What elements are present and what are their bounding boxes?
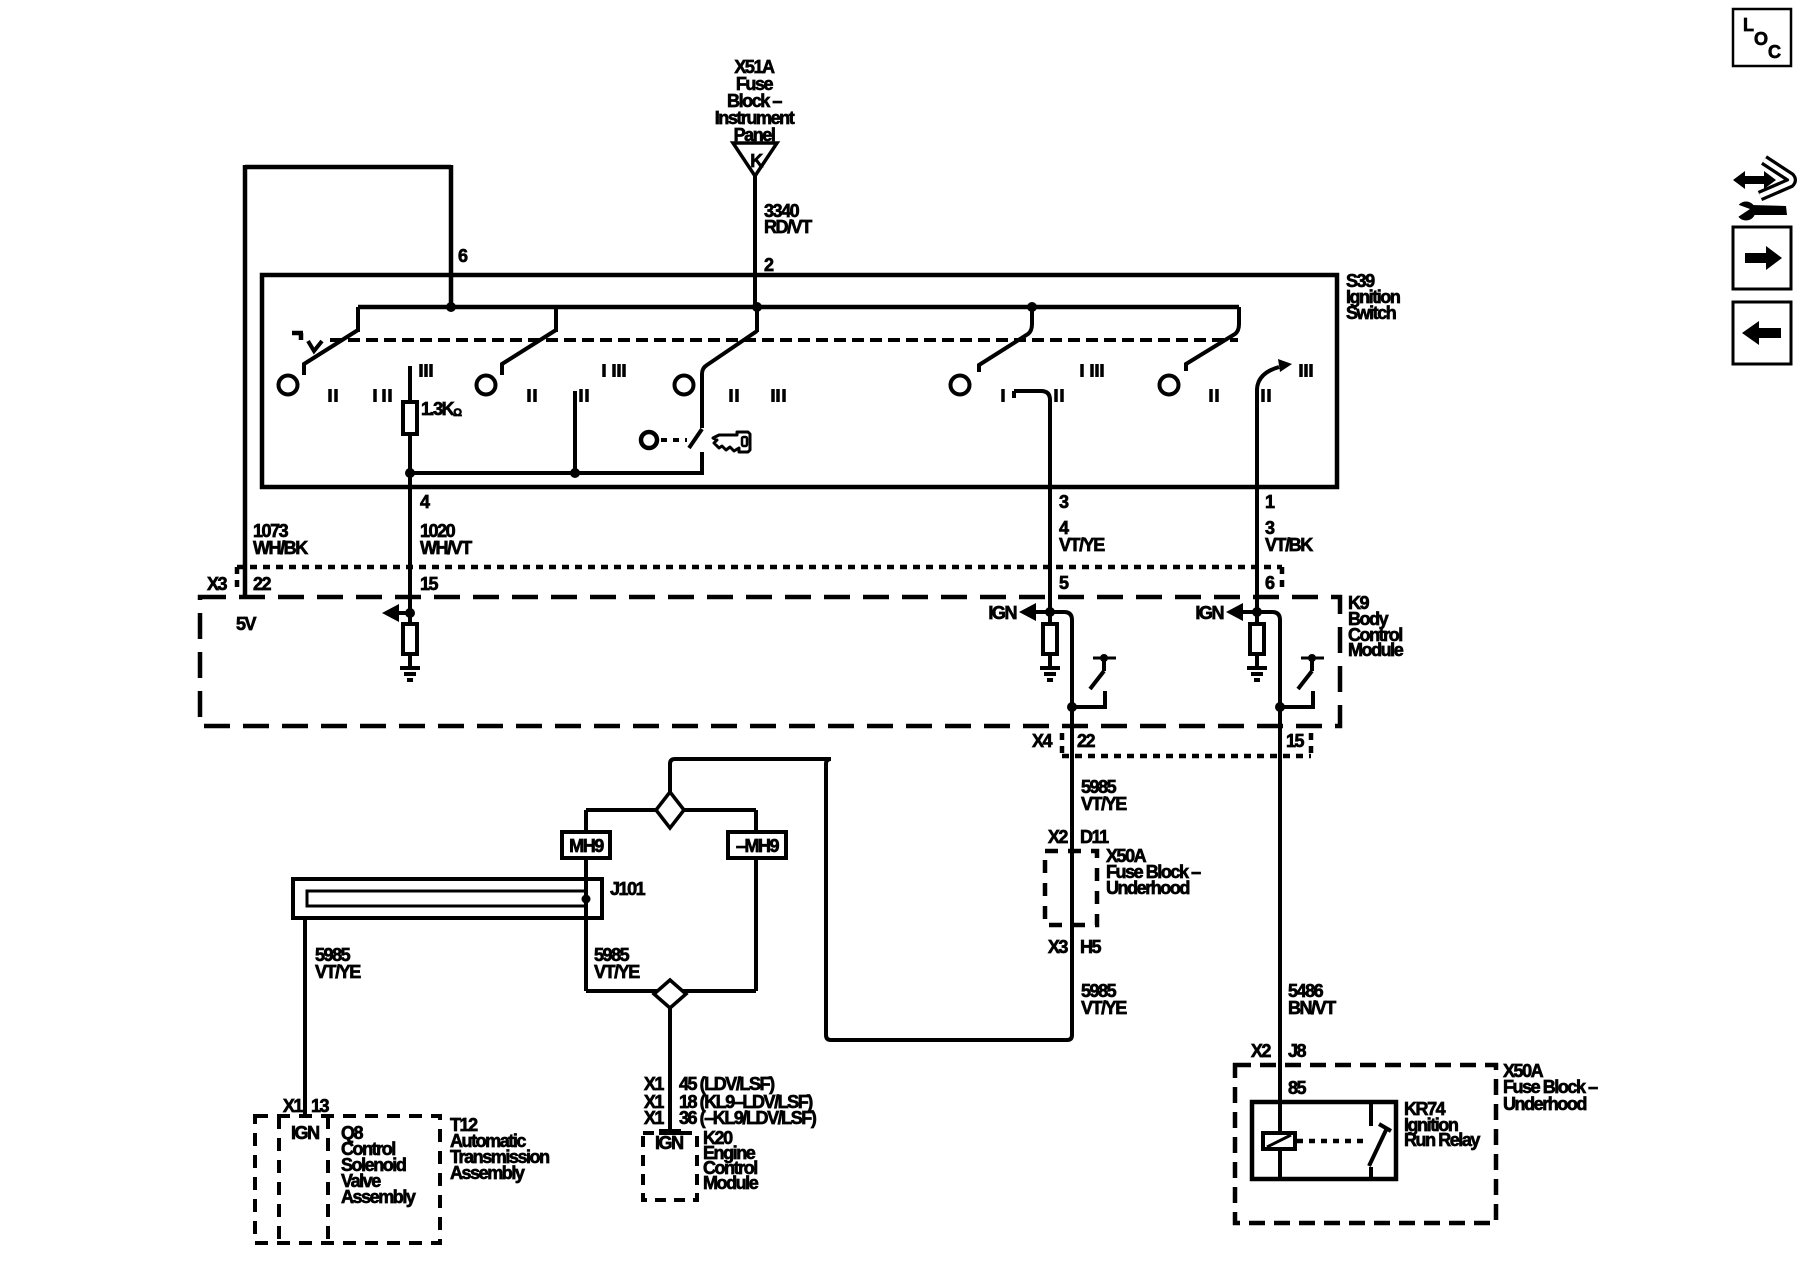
svg-text:X2: X2	[1048, 827, 1069, 847]
svg-text:X2: X2	[1251, 1041, 1272, 1061]
svg-text:MH9: MH9	[569, 836, 604, 856]
svg-text:X3: X3	[1048, 937, 1069, 957]
svg-text:Underhood: Underhood	[1106, 878, 1189, 898]
svg-text:IGN: IGN	[291, 1123, 319, 1143]
svg-text:Assembly: Assembly	[341, 1187, 416, 1207]
svg-text:IGN: IGN	[988, 603, 1016, 623]
svg-text:13: 13	[311, 1096, 330, 1116]
svg-text:L: L	[1743, 15, 1754, 35]
svg-text:Assembly: Assembly	[450, 1163, 525, 1183]
svg-text:Module: Module	[703, 1173, 759, 1193]
svg-text:BN/VT: BN/VT	[1288, 998, 1336, 1018]
svg-text:VT/BK: VT/BK	[1265, 535, 1313, 555]
svg-text:IGN: IGN	[1195, 603, 1223, 623]
svg-text:WH/BK: WH/BK	[253, 538, 308, 558]
svg-text:X1: X1	[644, 1074, 665, 1094]
svg-text:VT/YE: VT/YE	[1081, 794, 1127, 814]
svg-text:WH/VT: WH/VT	[420, 538, 472, 558]
svg-text:5V: 5V	[236, 614, 257, 634]
svg-text:VT/YE: VT/YE	[315, 962, 361, 982]
svg-text:X3: X3	[207, 574, 228, 594]
svg-text:6: 6	[1265, 573, 1275, 593]
svg-text:85: 85	[1288, 1078, 1307, 1098]
svg-text:3: 3	[1059, 492, 1069, 512]
svg-text:2: 2	[764, 255, 774, 275]
svg-text:VT/YE: VT/YE	[1081, 998, 1127, 1018]
svg-text:O: O	[1754, 29, 1768, 49]
svg-text:H5: H5	[1080, 937, 1102, 957]
svg-text:4: 4	[420, 492, 430, 512]
svg-text:Switch: Switch	[1346, 303, 1396, 323]
svg-text:X1: X1	[283, 1096, 304, 1116]
svg-text:15: 15	[1286, 731, 1305, 751]
svg-text:X1: X1	[644, 1108, 665, 1128]
svg-text:15: 15	[420, 574, 439, 594]
svg-text:22: 22	[1077, 731, 1096, 751]
svg-text:J8: J8	[1288, 1041, 1307, 1061]
svg-text:VT/YE: VT/YE	[594, 962, 640, 982]
svg-text:D11: D11	[1080, 827, 1109, 847]
svg-text:RD/VT: RD/VT	[764, 217, 812, 237]
svg-text:J101: J101	[610, 879, 646, 899]
svg-text:36 (–KL9/LDV/LSF): 36 (–KL9/LDV/LSF)	[679, 1108, 817, 1128]
svg-text:VT/YE: VT/YE	[1059, 535, 1105, 555]
svg-text:Run Relay: Run Relay	[1404, 1130, 1480, 1150]
svg-text:5: 5	[1059, 573, 1069, 593]
svg-text:IGN: IGN	[655, 1133, 683, 1153]
svg-text:22: 22	[253, 574, 272, 594]
svg-text:X4: X4	[1032, 731, 1053, 751]
svg-text:Module: Module	[1348, 640, 1404, 660]
svg-text:1: 1	[1265, 492, 1275, 512]
svg-text:6: 6	[458, 246, 468, 266]
svg-text:K: K	[750, 151, 763, 171]
svg-text:C: C	[1768, 42, 1781, 62]
svg-text:Underhood: Underhood	[1503, 1094, 1586, 1114]
svg-text:45 (LDV/LSF): 45 (LDV/LSF)	[679, 1074, 775, 1094]
svg-text:–MH9: –MH9	[736, 836, 780, 856]
